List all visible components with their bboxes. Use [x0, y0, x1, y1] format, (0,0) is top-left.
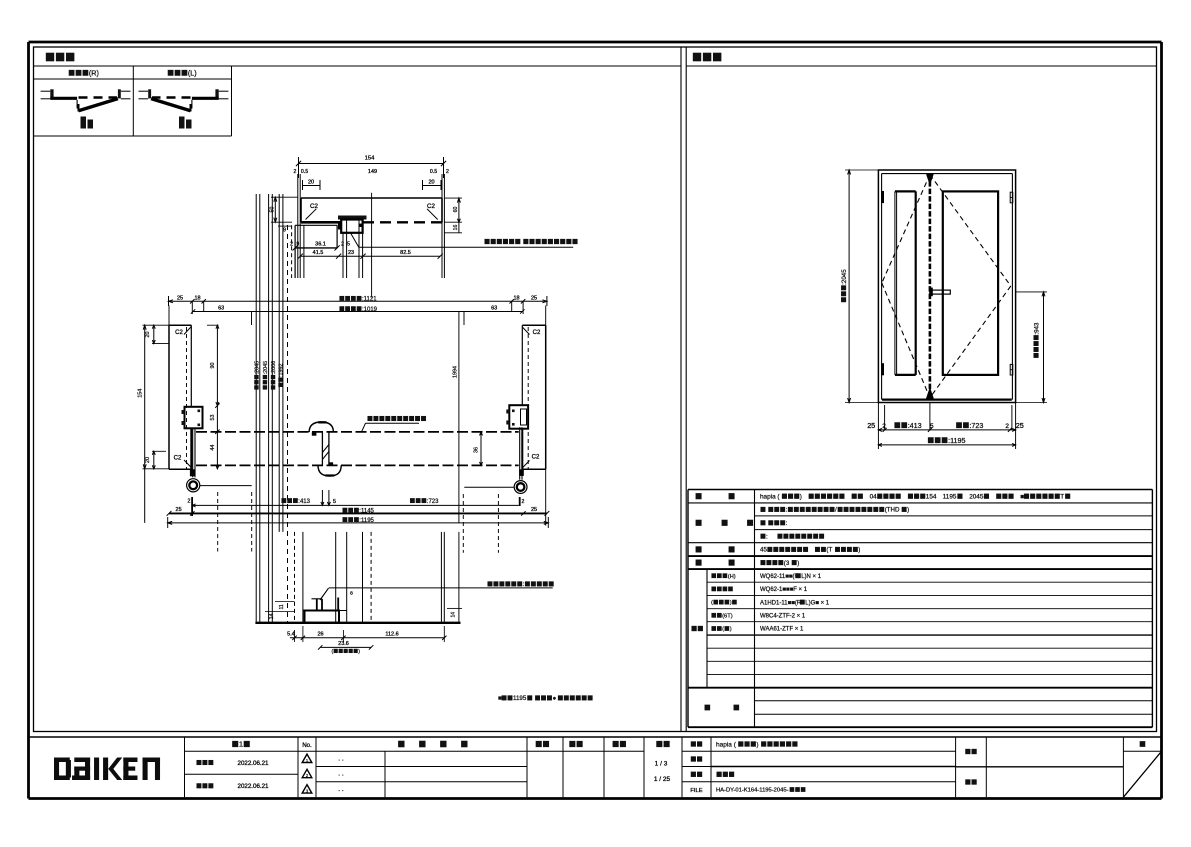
svg-text:44: 44: [210, 445, 216, 451]
svg-text:hapia (: hapia (: [716, 741, 737, 748]
svg-text:0.5: 0.5: [301, 169, 308, 175]
svg-text:18: 18: [194, 295, 200, 301]
svg-text:): ): [358, 649, 360, 655]
svg-text:36: 36: [473, 447, 479, 453]
svg-text:L)N × 1: L)N × 1: [801, 574, 822, 580]
svg-text:45: 45: [760, 547, 767, 554]
svg-text::723: :723: [427, 499, 439, 505]
svg-text:C2: C2: [175, 330, 183, 336]
svg-text:WQ62-1■■■F × 1: WQ62-1■■■F × 1: [760, 587, 808, 593]
svg-text:): ): [800, 494, 802, 501]
svg-text:WQ62-11■■(R: WQ62-11■■(R: [760, 574, 799, 580]
svg-text:1994: 1994: [453, 366, 459, 378]
svg-text::1195: :1195: [948, 436, 965, 445]
svg-text:2: 2: [1005, 423, 1009, 430]
svg-text:149: 149: [368, 169, 377, 175]
svg-text:No.: No.: [302, 743, 312, 749]
svg-text:): ): [730, 600, 732, 606]
svg-text:. .: . .: [338, 771, 344, 778]
svg-text:C2: C2: [310, 203, 318, 210]
svg-text:63: 63: [218, 306, 224, 312]
svg-text::723: :723: [969, 421, 983, 430]
svg-text:5: 5: [347, 241, 350, 247]
svg-text:(: (: [722, 627, 724, 633]
svg-text:(T: (T: [826, 547, 832, 554]
svg-text:14: 14: [451, 612, 457, 618]
svg-text::2045: :2045: [254, 361, 260, 375]
svg-text:C2: C2: [174, 456, 182, 462]
svg-text:2022.06.21: 2022.06.21: [238, 783, 270, 790]
svg-text:20: 20: [428, 180, 434, 186]
svg-text::413: :413: [298, 499, 310, 505]
svg-text:25: 25: [176, 507, 182, 513]
svg-text:(: (: [332, 649, 334, 655]
svg-text:C2: C2: [533, 330, 541, 336]
svg-text:5.4: 5.4: [287, 632, 295, 638]
svg-text:2: 2: [882, 423, 886, 430]
svg-text:14: 14: [269, 613, 275, 619]
svg-text:): ): [907, 507, 909, 514]
svg-text:5: 5: [333, 499, 336, 505]
svg-text:(H): (H): [728, 574, 736, 580]
svg-text::943: :943: [1033, 322, 1040, 335]
svg-text:154: 154: [138, 389, 144, 398]
svg-text:20: 20: [145, 457, 151, 463]
svg-text:2: 2: [522, 499, 525, 505]
svg-text:23: 23: [348, 250, 354, 256]
svg-text:(L): (L): [188, 68, 197, 77]
svg-text::: :: [523, 581, 525, 588]
svg-text:hapia (: hapia (: [760, 494, 780, 501]
svg-text:82.5: 82.5: [400, 250, 411, 256]
svg-text:2: 2: [188, 498, 191, 504]
svg-text:A1HD1-11■■(R: A1HD1-11■■(R: [760, 600, 802, 606]
svg-text:25: 25: [1016, 421, 1024, 430]
svg-text:41.5: 41.5: [313, 250, 324, 256]
svg-text:154: 154: [926, 494, 937, 501]
svg-text::1195: :1195: [359, 518, 374, 524]
svg-text:): ): [756, 741, 758, 748]
svg-text:●: ●: [553, 695, 557, 702]
svg-text:L)G■ × 1: L)G■ × 1: [805, 600, 829, 606]
svg-text:0.5: 0.5: [430, 169, 437, 175]
svg-text:36.1: 36.1: [315, 242, 326, 248]
svg-text:11: 11: [279, 604, 285, 609]
svg-text:■: ■: [1020, 494, 1024, 501]
svg-text:2: 2: [290, 241, 293, 247]
svg-text:T: T: [1060, 494, 1064, 501]
svg-text::: :: [766, 533, 768, 540]
svg-text:HA-DY-01-K164-1195-2045-: HA-DY-01-K164-1195-2045-: [716, 788, 789, 794]
svg-text:63: 63: [491, 306, 497, 312]
svg-text:1 / 3: 1 / 3: [655, 760, 668, 767]
svg-text:18: 18: [513, 295, 519, 301]
svg-text::1121: :1121: [362, 297, 377, 303]
svg-text:): ): [797, 560, 799, 567]
svg-text::: :: [786, 507, 788, 514]
svg-text:/: /: [835, 507, 837, 514]
svg-text:26: 26: [317, 632, 323, 638]
svg-text:(: (: [711, 600, 713, 606]
svg-text:■: ■: [498, 695, 502, 702]
svg-text:): ): [858, 547, 860, 554]
svg-text:W8C4-ZTF-2 × 1: W8C4-ZTF-2 × 1: [760, 614, 806, 620]
svg-text::2045: :2045: [841, 269, 848, 285]
svg-text:2: 2: [446, 169, 449, 175]
svg-text:C2: C2: [532, 455, 540, 461]
svg-text:(6T): (6T): [722, 613, 733, 619]
svg-text::: :: [786, 520, 788, 527]
svg-text:2045: 2045: [969, 494, 984, 501]
svg-text::1019: :1019: [362, 307, 378, 313]
svg-text:. .: . .: [338, 786, 344, 793]
svg-text:16: 16: [453, 225, 459, 231]
svg-text:60: 60: [453, 207, 459, 213]
svg-text:): ): [730, 627, 732, 633]
svg-text:2: 2: [294, 169, 297, 175]
svg-text:(3: (3: [784, 560, 790, 567]
svg-text::1992: :1992: [279, 364, 285, 378]
svg-text:90: 90: [210, 363, 216, 369]
svg-text:154: 154: [365, 156, 375, 162]
svg-text:23.6: 23.6: [338, 641, 349, 647]
svg-text:WAA61-ZTF × 1: WAA61-ZTF × 1: [760, 627, 804, 633]
svg-text:FILE: FILE: [690, 788, 702, 794]
svg-text:9: 9: [283, 228, 286, 234]
svg-text::1145: :1145: [359, 508, 374, 514]
svg-text:1195: 1195: [513, 695, 527, 702]
svg-text:C2: C2: [427, 203, 435, 210]
svg-text:53: 53: [210, 415, 216, 421]
svg-text:25: 25: [531, 295, 537, 301]
svg-text:25: 25: [867, 421, 875, 430]
svg-text:1195: 1195: [943, 494, 957, 501]
svg-text:2022.06.21: 2022.06.21: [238, 760, 270, 767]
svg-text:(THD: (THD: [885, 507, 900, 514]
svg-text::413: :413: [908, 421, 922, 430]
svg-text:(R): (R): [89, 68, 99, 77]
svg-text:20: 20: [145, 332, 151, 338]
svg-text::2006: :2006: [271, 361, 277, 375]
svg-text:112.6: 112.6: [385, 632, 398, 638]
svg-text:5: 5: [930, 423, 934, 430]
svg-text:8: 8: [350, 591, 353, 597]
svg-text:1: 1: [239, 740, 243, 749]
svg-text:1 / 25: 1 / 25: [654, 776, 671, 783]
svg-text:. .: . .: [338, 755, 344, 762]
svg-text::2045: :2045: [263, 361, 269, 375]
svg-text:25: 25: [177, 295, 183, 301]
svg-text:04: 04: [870, 494, 878, 501]
svg-text:9: 9: [296, 241, 299, 247]
svg-text:20: 20: [308, 180, 314, 186]
svg-text:25: 25: [531, 507, 537, 513]
